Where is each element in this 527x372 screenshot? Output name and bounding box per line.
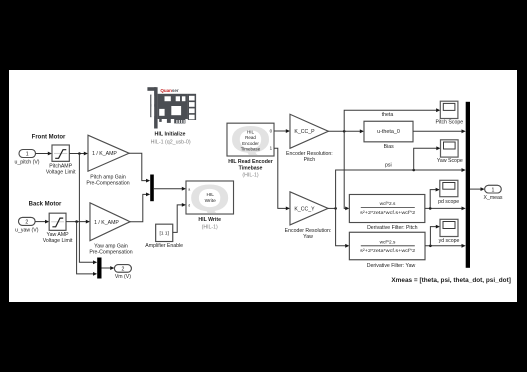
gain 1/K_AMP pitch (86, 135, 129, 186)
saturation PitchAMP Voltage Limit (46, 145, 76, 175)
wire mux1 to HIL Write (154, 187, 186, 191)
input port 2 u_yaw (15, 217, 39, 233)
wire HIL Read port0 to K_CC_P (274, 129, 290, 133)
bias u-theta_0 (364, 121, 413, 150)
gain K_CC_P (286, 114, 333, 163)
svg-text:Quanser: Quanser (160, 88, 179, 93)
svg-text:u_yaw (V): u_yaw (V) (15, 228, 39, 234)
diagram white canvas (9, 70, 517, 302)
svg-text:HIL Read Encoder: HIL Read Encoder (228, 159, 273, 165)
svg-text:1: 1 (26, 152, 29, 158)
svg-text:1 / K_AMP: 1 / K_AMP (94, 220, 119, 226)
mux Xmeas (466, 102, 470, 268)
svg-text:Pitch Scope: Pitch Scope (435, 120, 463, 126)
wire HIL Read port1 to K_CC_Y (274, 148, 290, 210)
svg-text:Back Motor: Back Motor (29, 201, 62, 207)
output port 2 Vm (114, 265, 131, 280)
svg-text:Voltage Limit: Voltage Limit (43, 238, 73, 244)
wire K_CC_Y out junction (328, 207, 337, 210)
svg-text:HIL Write: HIL Write (198, 217, 221, 223)
svg-text:K_CC_P: K_CC_P (294, 129, 315, 135)
constant [1 1] (145, 224, 183, 249)
svg-text:Bias: Bias (384, 144, 394, 150)
svg-text:s²+2*zeta*wcf.s+wcf^2: s²+2*zeta*wcf.s+wcf^2 (360, 248, 415, 254)
wire port1 to PitchAMP (36, 152, 53, 156)
svg-text:Amplifier Enable: Amplifier Enable (145, 243, 183, 249)
input port 1 u_pitch (14, 150, 39, 166)
transfer fcn Derivative Filter: Yaw (349, 232, 425, 269)
svg-text:Encoder: Encoder (242, 141, 259, 146)
svg-text:(HIL-1): (HIL-1) (202, 225, 218, 231)
svg-text:K_CC_Y: K_CC_Y (294, 206, 315, 212)
svg-text:1 / K_AMP: 1 / K_AMP (92, 151, 117, 157)
wire Vm mux to port Vm (102, 266, 115, 270)
svg-text:Vm (V): Vm (V) (115, 274, 131, 280)
wire pd branch to pd scope (430, 188, 440, 209)
svg-text:Pre-Compensation: Pre-Compensation (89, 250, 132, 256)
svg-text:psi: psi (385, 163, 392, 169)
wire yaw branch down to derivative filter yaw (336, 208, 350, 247)
svg-text:Xmeas = [theta, psi, theta_dot: Xmeas = [theta, psi, theta_dot, psi_dot] (391, 278, 511, 284)
svg-text:Timebase: Timebase (239, 165, 263, 171)
wire Bias to mux input 1 (413, 129, 466, 133)
svg-text:1: 1 (492, 187, 495, 193)
wire constant to HIL Write d (173, 203, 186, 232)
svg-text:s²+2*zeta*wcf.s+wcf^2: s²+2*zeta*wcf.s+wcf^2 (360, 210, 415, 216)
HIL Initialize card U0 (147, 87, 196, 145)
svg-text:HIL: HIL (206, 192, 214, 198)
wire pitch branch down to derivative filter (344, 131, 349, 210)
svg-text:HIL-1 (q2_usb-0): HIL-1 (q2_usb-0) (151, 140, 191, 146)
wire pitch tap to Vm mux (79, 154, 97, 265)
wire port2 to YawAMP (35, 220, 49, 224)
wire pitch gain to mux1 (129, 153, 150, 182)
svg-text:HIL Initialize: HIL Initialize (155, 132, 186, 138)
svg-text:Voltage Limit: Voltage Limit (46, 169, 76, 175)
svg-text:u_pitch (V): u_pitch (V) (14, 159, 39, 165)
svg-text:HIL: HIL (247, 129, 255, 134)
svg-text:Timebase: Timebase (241, 147, 261, 152)
svg-text:Read: Read (245, 135, 256, 140)
svg-text:yd scope: yd scope (439, 238, 460, 244)
svg-text:wcf^2.s: wcf^2.s (380, 201, 396, 207)
HIL Read Encoder Timebase U3 (227, 118, 274, 179)
wire theta branch to Pitch Scope (344, 108, 440, 131)
svg-text:d: d (188, 204, 190, 208)
HIL Write U2 (186, 176, 234, 230)
wire psi to mux input 2 (336, 168, 466, 208)
mux Vm (97, 258, 101, 279)
wire YawAMP to yaw gain (66, 220, 90, 224)
wire mux to X_meas port (470, 187, 485, 191)
svg-text:X_meas: X_meas (483, 195, 502, 201)
svg-text:u-theta_0: u-theta_0 (377, 129, 400, 135)
svg-text:pd scope: pd scope (438, 199, 459, 205)
scope Pitch Scope (435, 101, 463, 125)
svg-text:[1 1]: [1 1] (160, 231, 169, 237)
gain 1/K_AMP yaw (89, 203, 132, 256)
svg-text:Front Motor: Front Motor (32, 135, 66, 141)
svg-text:(HIL-1): (HIL-1) (242, 173, 258, 179)
svg-text:2: 2 (121, 267, 124, 273)
saturation Yaw AMP Voltage Limit (43, 213, 73, 244)
scope yd scope (439, 219, 460, 244)
wire K_CC_P to Bias (328, 129, 364, 133)
mux1 to HIL Write (150, 175, 154, 202)
wire yaw tap to Vm mux (77, 222, 98, 276)
svg-text:a: a (188, 187, 190, 191)
scope pd scope (438, 180, 459, 205)
wire yd branch to yd scope (430, 225, 440, 246)
wire deriv yaw to mux input 4 (425, 244, 466, 248)
wire deriv pitch to mux input 3 (425, 207, 466, 211)
output port 1 X_meas (483, 185, 502, 201)
svg-text:Yaw: Yaw (303, 234, 313, 240)
wire psi branch to Yaw Scope (414, 146, 441, 170)
svg-text:Write: Write (205, 198, 216, 204)
scope Yaw Scope (437, 140, 463, 164)
gain K_CC_Y (285, 192, 332, 240)
wire PitchAMP to pitch gain (69, 152, 88, 156)
svg-text:Pre-Compensation: Pre-Compensation (86, 180, 129, 186)
svg-text:wcf^2.s: wcf^2.s (380, 239, 396, 245)
svg-text:Pitch: Pitch (304, 157, 316, 163)
transfer fcn Derivative Filter: Pitch (349, 195, 424, 231)
svg-text:2: 2 (25, 220, 28, 226)
svg-text:Derivative Filter: Pitch: Derivative Filter: Pitch (367, 225, 418, 231)
wire yaw gain to mux1 (130, 193, 150, 222)
svg-text:theta: theta (382, 112, 394, 118)
svg-text:Derivative Filter: Yaw: Derivative Filter: Yaw (367, 263, 416, 269)
svg-text:Yaw Scope: Yaw Scope (437, 158, 463, 164)
